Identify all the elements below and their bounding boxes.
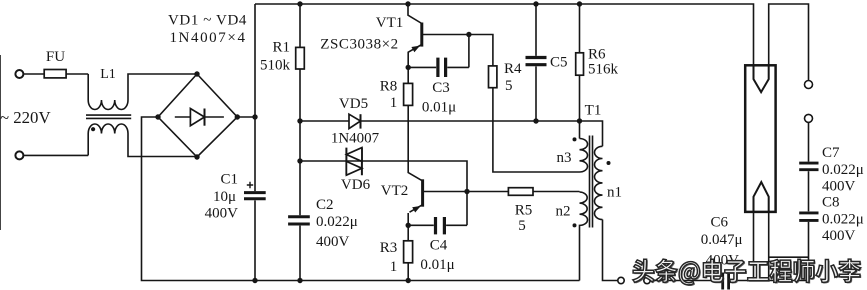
wire: bridge + to C1 rail [237, 116, 255, 118]
svg-text:5: 5 [518, 218, 526, 234]
node: bridge bottom vertex [194, 154, 199, 159]
svg-text:1: 1 [390, 95, 398, 111]
node: bridge left vertex [155, 114, 160, 119]
lamp top filament [754, 65, 769, 92]
wire: VD6 net [300, 161, 467, 192]
wire [24, 154, 88, 156]
svg-text:1N4007×4: 1N4007×4 [169, 30, 246, 46]
svg-text:n1: n1 [607, 185, 622, 201]
svg-text:C7: C7 [822, 145, 840, 161]
svg-text:VD1 ~ VD4: VD1 ~ VD4 [168, 13, 247, 29]
wire: base node to R4 [469, 35, 580, 173]
scan edge artifact [0, 55, 2, 230]
node: AC input terminal bottom [15, 151, 23, 159]
svg-text:R4: R4 [504, 61, 522, 77]
T1 winding n3 [579, 121, 581, 139]
svg-text:C1: C1 [220, 172, 238, 188]
svg-text:400V: 400V [822, 179, 856, 195]
wire: lamp bottom pins [754, 212, 769, 281]
resistor R4 [489, 66, 497, 88]
L1 core [86, 115, 131, 118]
bridge rectifier VD1~VD4 [158, 74, 237, 157]
svg-text:5: 5 [505, 78, 513, 94]
node: AC input terminal top [15, 70, 23, 78]
wire: R1/C2 rail [299, 4, 301, 281]
transistor VT2 [421, 179, 424, 206]
transistor VT1 [408, 4, 422, 24]
wire: top rail [255, 4, 754, 79]
svg-text:0.022μ: 0.022μ [316, 214, 358, 230]
capacitor C4 [408, 192, 467, 226]
resistor R8 [404, 83, 413, 105]
T1 core [590, 136, 593, 228]
wire: C8 down and to lamp bottom-right pin [769, 222, 809, 281]
resistor R6 [579, 4, 581, 121]
svg-text:L1: L1 [100, 67, 116, 82]
svg-text:R5: R5 [515, 203, 533, 219]
resistor R1 [296, 47, 305, 69]
svg-text:C2: C2 [316, 197, 334, 213]
svg-text:10μ: 10μ [213, 189, 236, 205]
svg-text:ZSC3038×2: ZSC3038×2 [320, 37, 398, 53]
capacitor C2 [288, 217, 310, 224]
node: bridge right vertex [235, 114, 240, 119]
svg-text:0.022μ: 0.022μ [822, 162, 864, 178]
svg-text:0.01μ: 0.01μ [420, 257, 454, 273]
capacitor C7 [799, 163, 818, 170]
wire: crossover link [769, 256, 809, 258]
fuse FU [44, 70, 66, 78]
node: lamp terminal circle top [805, 81, 813, 89]
wire: C1 rail [254, 4, 256, 281]
svg-text:R3: R3 [380, 240, 398, 256]
svg-text:VT2: VT2 [381, 183, 409, 199]
resistor R5 [467, 191, 580, 193]
svg-text:R6: R6 [588, 47, 606, 63]
diode VD5 [349, 114, 361, 128]
node: connector circle left [618, 277, 624, 283]
svg-text:C6: C6 [711, 215, 729, 231]
wire: to C6 [650, 280, 721, 282]
node: connector circle right [644, 277, 650, 283]
svg-text:C5: C5 [550, 55, 568, 71]
wire: lamp top-right pin to terminal [769, 4, 809, 80]
svg-text:400V: 400V [205, 206, 239, 222]
wire: C6 to lamp pin [730, 280, 754, 282]
wire: L1 bottom leads [87, 134, 89, 156]
svg-text:VD5: VD5 [339, 96, 368, 112]
L1 bottom winding [88, 124, 128, 134]
T1 winding n1 [580, 121, 603, 146]
svg-text:n3: n3 [557, 150, 572, 166]
resistor R3 [407, 225, 409, 280]
svg-text:R8: R8 [380, 79, 398, 95]
svg-text:VT1: VT1 [376, 15, 404, 31]
svg-text:400V: 400V [822, 228, 856, 244]
T1 winding n2 [580, 192, 588, 281]
lamp bottom filament [754, 182, 769, 212]
svg-text:R1: R1 [272, 40, 290, 56]
svg-text:VD6: VD6 [341, 177, 371, 193]
svg-text:510k: 510k [260, 58, 291, 74]
capacitor C3 [408, 35, 469, 68]
wire: negative rail (bottom) [142, 117, 580, 281]
wire: VT1 emitter chain down to VT2 collector [408, 67, 422, 180]
wire: n1 bottom to lamp connector [603, 220, 618, 281]
capacitor C6 [723, 273, 729, 290]
svg-text:n2: n2 [556, 204, 571, 220]
diode VD6 (two anti-parallel) [346, 148, 362, 176]
svg-text:516k: 516k [588, 62, 619, 78]
L1 polarity dot [91, 127, 95, 131]
watermark 头条@电子工程师小李 [633, 259, 862, 286]
svg-text:0.022μ: 0.022μ [822, 212, 864, 228]
capacitor C1 [244, 193, 266, 199]
svg-text:C8: C8 [822, 195, 840, 211]
wire: L1 top leads [87, 74, 89, 100]
svg-text:~ 220V: ~ 220V [0, 108, 51, 127]
fluorescent lamp tube [745, 65, 775, 212]
svg-text:400V: 400V [316, 234, 350, 250]
svg-text:0.047μ: 0.047μ [701, 232, 743, 248]
svg-text:C4: C4 [430, 238, 448, 254]
node: bridge top vertex [194, 71, 199, 76]
svg-text:1N4007: 1N4007 [331, 131, 380, 147]
capacitor C5 [535, 4, 537, 121]
svg-text:1: 1 [390, 259, 398, 275]
wire: C7 to C8 [808, 171, 810, 211]
wire [24, 73, 88, 75]
svg-text:T1: T1 [585, 103, 602, 119]
wire: VD5 net [300, 120, 580, 122]
wire: to C7 [808, 123, 810, 162]
svg-text:0.01μ: 0.01μ [422, 100, 456, 116]
svg-text:C3: C3 [432, 80, 450, 96]
svg-text:FU: FU [46, 49, 65, 65]
node: lamp terminal circle lower [805, 114, 813, 122]
capacitor C8 [799, 213, 818, 221]
L1 top winding [88, 100, 128, 110]
